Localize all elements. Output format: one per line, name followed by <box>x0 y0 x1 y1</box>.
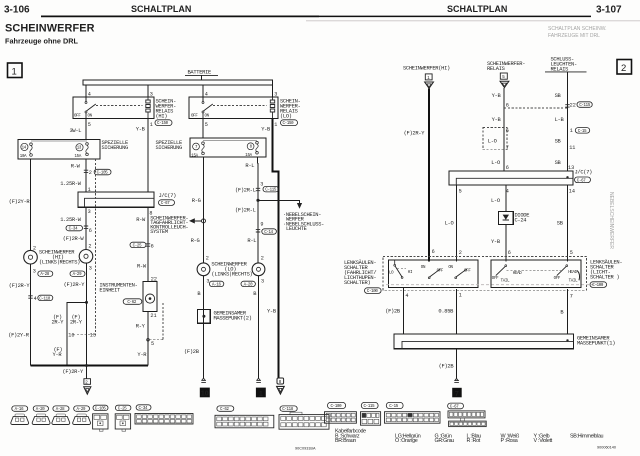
wire L-O junction to light switch pin2 <box>445 185 462 262</box>
svg-text:L-O: L-O <box>488 138 497 144</box>
svg-text:(F)2R-L: (F)2R-L <box>235 187 256 193</box>
svg-text:3: 3 <box>33 269 36 275</box>
junction dot nebel branch <box>256 199 259 202</box>
svg-text:C-34: C-34 <box>139 407 148 411</box>
svg-text:5: 5 <box>205 122 208 128</box>
connector C-34 multipin <box>135 405 193 424</box>
svg-text:2R-Y: 2R-Y <box>70 320 83 326</box>
svg-text:1: 1 <box>259 389 263 398</box>
svg-text:OFF: OFF <box>554 277 561 281</box>
connector C-25 fuseholder <box>115 405 131 431</box>
wire Y-B relay HI pin1 down <box>136 118 148 192</box>
ground terminal 7 <box>452 378 462 397</box>
wire (F)2R-Y left lamp down <box>9 264 31 366</box>
label lenksaeulen-schalter licht <box>590 258 622 288</box>
svg-text:C-105: C-105 <box>97 172 109 176</box>
svg-text:10A: 10A <box>20 155 27 159</box>
svg-text:R :Rot: R :Rot <box>467 438 481 444</box>
wire R-W fusebox to connector <box>71 159 86 192</box>
wire (F)2R-Y right lamp down to ground 2 <box>64 263 87 379</box>
lamp right SCHEINWERFER HI <box>79 249 93 263</box>
svg-text:Y-B: Y-B <box>261 126 271 132</box>
svg-text:900060140: 900060140 <box>597 446 616 450</box>
svg-text:2R-Y: 2R-Y <box>52 320 65 326</box>
svg-text:3-107: 3-107 <box>596 5 622 16</box>
svg-text:3: 3 <box>260 181 263 187</box>
svg-text:C-100: C-100 <box>331 405 343 409</box>
fuse 14 10A <box>20 143 33 159</box>
svg-text:SCHALTPLAN: SCHALTPLAN <box>131 4 191 14</box>
connector C-118 multipin <box>279 406 329 429</box>
inline connector 9 C-14 <box>256 221 277 235</box>
svg-text:4: 4 <box>34 296 37 302</box>
lamp right SCHEINWERFER LO <box>252 263 265 276</box>
svg-text:TAIL: TAIL <box>501 280 510 284</box>
wire drop to relay HI pin 4 <box>85 85 87 97</box>
svg-text:21: 21 <box>150 313 156 319</box>
connector C-105 fuseholder <box>93 405 108 431</box>
junction dot at ground line <box>85 364 88 367</box>
svg-text:OFF: OFF <box>437 270 444 274</box>
svg-text:1: 1 <box>150 122 153 128</box>
svg-text:2: 2 <box>621 63 626 74</box>
fuse 13 15A <box>75 143 89 160</box>
fuse box left label <box>102 140 128 151</box>
wire drop to relay HI pin 3 <box>147 85 149 97</box>
svg-text:C-67: C-67 <box>161 202 170 206</box>
svg-text:(F)2R-Y: (F)2R-Y <box>9 283 31 289</box>
svg-text:SCHALTER): SCHALTER) <box>344 280 370 286</box>
label SCHEINWERFER-RELAIS source <box>487 61 525 72</box>
connector oval C-150 relay HI <box>155 120 172 126</box>
diode label <box>515 212 530 223</box>
wire 1.25R-W below junction block <box>60 207 86 249</box>
node 5 with dashed branch <box>147 303 163 347</box>
svg-text:FAHRZEUGE MIT DRL: FAHRZEUGE MIT DRL <box>548 33 600 39</box>
connector oval C-150 relay LO <box>281 120 298 126</box>
header rule right page <box>319 15 591 17</box>
svg-text:C-62: C-62 <box>220 408 229 412</box>
svg-text:2: 2 <box>89 170 92 176</box>
svg-text:LEUCHTE: LEUCHTE <box>286 226 307 232</box>
svg-text:6: 6 <box>89 228 92 234</box>
svg-text:SCHEINWERFER(HI): SCHEINWERFER(HI) <box>403 66 450 72</box>
wire L-O junction pin4 to diode <box>491 185 506 211</box>
svg-text:R-Y: R-Y <box>136 324 146 330</box>
svg-text:5: 5 <box>570 250 573 256</box>
svg-text:C-62: C-62 <box>127 301 136 305</box>
junction block J/C(7) left page <box>78 192 154 207</box>
svg-text:C-34: C-34 <box>69 228 78 232</box>
svg-text:(HI): (HI) <box>156 114 168 120</box>
wire B light switch to masse <box>560 289 567 334</box>
svg-text:C-15: C-15 <box>578 130 587 134</box>
masse label <box>214 311 252 322</box>
junction block label J/C(7) <box>159 193 177 206</box>
pin 3 connector C-115 <box>235 181 278 193</box>
svg-text:GR:Grau: GR:Grau <box>435 438 455 444</box>
svg-text:R-W: R-W <box>71 163 81 169</box>
svg-text:A-29: A-29 <box>73 273 82 277</box>
wire (F)2B below masse <box>439 349 457 379</box>
svg-text:16: 16 <box>68 333 74 339</box>
svg-text:SICHERUNG: SICHERUNG <box>102 145 128 151</box>
relay K2 SCHEINWERFER-RELAIS (LO) <box>189 97 278 119</box>
svg-text:MASSEPUNKT(1): MASSEPUNKT(1) <box>577 341 615 347</box>
svg-text:5: 5 <box>88 122 91 128</box>
off-page connector 5 with triangle <box>500 73 509 88</box>
svg-text:15A: 15A <box>245 154 252 158</box>
relay K2 label <box>280 99 301 120</box>
svg-text:OFF: OFF <box>74 115 81 119</box>
connector C-15 <box>385 402 441 423</box>
wire SB junction to light switch pin5 <box>557 185 573 262</box>
wire labels (F)2R-Y pair <box>52 315 83 326</box>
connector C-115 <box>361 402 381 425</box>
svg-text:SCHEINWERFER: SCHEINWERFER <box>5 23 95 35</box>
svg-text:6: 6 <box>506 128 509 134</box>
node with arrow to other system <box>189 218 206 223</box>
pin 6 dashed link <box>504 102 568 108</box>
header rule left page <box>41 15 319 17</box>
svg-text:6: 6 <box>506 102 509 108</box>
svg-text:15A: 15A <box>75 155 82 159</box>
svg-text:(F)2R-Y: (F)2R-Y <box>64 282 86 288</box>
svg-text:3: 3 <box>89 265 92 271</box>
svg-text:7: 7 <box>570 293 573 299</box>
svg-text:R-L: R-L <box>245 163 254 169</box>
junction block label right <box>575 170 593 184</box>
ground terminal 1 <box>256 378 266 398</box>
fuse box center label <box>156 140 182 151</box>
svg-text:(F)2B: (F)2B <box>184 349 200 355</box>
svg-text:TAIL: TAIL <box>569 280 578 284</box>
ground terminal 10 <box>200 378 210 397</box>
svg-text:0.85B: 0.85B <box>438 308 454 314</box>
connector C-67 <box>448 403 487 427</box>
wire Y-B heavy relay LO pin1 down <box>261 118 278 377</box>
fuse box center SPEZIELLE SICHERUNG <box>190 138 266 157</box>
label lenksaeulen-schalter fahrlicht <box>344 259 381 294</box>
svg-text:C-100: C-100 <box>367 290 379 294</box>
svg-text:6: 6 <box>506 165 509 171</box>
lamp left SCHEINWERFER LO <box>197 263 210 276</box>
svg-text:5: 5 <box>459 189 462 195</box>
svg-text:Y-B: Y-B <box>267 309 277 315</box>
svg-text:R-G: R-G <box>191 238 200 244</box>
svg-text:1: 1 <box>12 67 17 78</box>
svg-text:C-25: C-25 <box>118 407 127 411</box>
svg-text:L-B: L-B <box>555 117 565 123</box>
svg-text:14: 14 <box>569 189 575 195</box>
svg-text:A-29: A-29 <box>77 408 86 412</box>
svg-text:C-118: C-118 <box>282 408 294 412</box>
diode C-24 <box>499 211 514 224</box>
common ground point GEMEINSAMER MASSEPUNKT(1) <box>394 334 574 349</box>
svg-text:OFF: OFF <box>191 115 198 119</box>
svg-text:7: 7 <box>506 145 509 151</box>
svg-text:6: 6 <box>432 249 435 255</box>
section marker box 2 <box>617 60 632 75</box>
svg-text:9: 9 <box>260 221 263 227</box>
svg-text:4: 4 <box>405 293 408 299</box>
svg-text:L-O: L-O <box>491 160 500 166</box>
wire 0.85B to masse <box>438 289 456 334</box>
svg-text:V :Violett: V :Violett <box>534 438 553 444</box>
wire (F)2B dimmer to masse <box>385 288 403 335</box>
connector A-29 <box>73 406 91 425</box>
battery bus bar <box>83 80 272 85</box>
wire B right LO lamp down <box>253 276 258 379</box>
svg-text:(F)2R-L: (F)2R-L <box>235 208 256 214</box>
connector oval A-20 <box>241 281 255 287</box>
svg-text:(F)2B: (F)2B <box>439 363 455 369</box>
svg-text:O :Orange: O :Orange <box>395 438 418 444</box>
label nebelscheinwerfer <box>283 212 324 232</box>
svg-text:A-16: A-16 <box>15 408 24 412</box>
svg-text:7: 7 <box>455 389 459 398</box>
junction dot branch <box>85 301 88 304</box>
svg-text:1: 1 <box>274 122 277 128</box>
inline connector C-34 on wire <box>66 225 92 234</box>
svg-text:L-O: L-O <box>491 198 500 204</box>
svg-text:R-W: R-W <box>136 217 146 223</box>
connector C-100 <box>325 402 357 423</box>
svg-text:(LINKS|RECHTS): (LINKS|RECHTS) <box>211 272 252 278</box>
connector oval A-28 <box>38 271 53 277</box>
svg-text:A-28: A-28 <box>56 408 65 412</box>
svg-text:SB:Himmelblau: SB:Himmelblau <box>570 433 604 439</box>
connector C-62 multipin <box>215 406 274 428</box>
wire labels (F) Y-R <box>53 347 63 358</box>
svg-text:SICHERUNG: SICHERUNG <box>156 145 182 151</box>
wire Y-B relais down <box>492 88 504 171</box>
svg-text:2: 2 <box>33 246 36 252</box>
svg-text:1.25R-W: 1.25R-W <box>60 217 82 223</box>
svg-text:2: 2 <box>459 250 462 256</box>
svg-text:2: 2 <box>261 255 264 261</box>
dashed wire optional x95 <box>94 159 96 335</box>
mechanical link dashed <box>386 284 597 286</box>
pin 1 connector C-15 <box>570 128 590 135</box>
svg-text:(F)2Y-R: (F)2Y-R <box>9 199 31 205</box>
label SCHEINWERFER (LO) (LINKS|RECHTS) <box>211 262 252 278</box>
fuse 7 15A <box>191 142 204 159</box>
wire Y-B diode to switch <box>491 225 511 262</box>
svg-text:BR:Braun: BR:Braun <box>335 438 356 444</box>
page edge shadow line <box>306 20 640 22</box>
inline connector C-25 pin 6 <box>130 242 154 249</box>
ground connector 2 <box>84 379 91 394</box>
wire (F)2R-Y heavy to dimmer switch <box>404 89 429 262</box>
wire branch to pin 16 <box>67 302 87 365</box>
svg-text:P :Rosa: P :Rosa <box>501 438 518 444</box>
svg-text:L-O: L-O <box>445 221 454 227</box>
svg-text:22: 22 <box>570 102 576 108</box>
svg-text:2: 2 <box>88 243 91 249</box>
relay K1 SCHEINWERFER-RELAIS (HI) <box>73 97 154 119</box>
connector A-16 <box>11 406 29 425</box>
svg-text:5: 5 <box>151 341 154 347</box>
instrument unit INSTRUMENTEN-EINHEIT <box>143 282 157 312</box>
svg-text:15A: 15A <box>191 154 198 158</box>
svg-text:(F)2R-W: (F)2R-W <box>63 236 85 242</box>
fuse 8 15A <box>245 141 258 157</box>
column switch outer dashed box <box>383 257 587 291</box>
svg-text:Y-B: Y-B <box>492 117 502 123</box>
svg-text:C-118: C-118 <box>39 297 51 301</box>
svg-text:(F)2R-Y: (F)2R-Y <box>62 369 84 375</box>
svg-text:A-28: A-28 <box>40 273 49 277</box>
wire drop to relay LO pin 3 <box>272 85 274 97</box>
lighting switch box <box>491 260 581 288</box>
svg-text:J/C(7): J/C(7) <box>575 170 593 176</box>
svg-text:C-14: C-14 <box>264 231 273 235</box>
svg-text:J/C(7): J/C(7) <box>159 193 177 199</box>
svg-text:C-100: C-100 <box>592 284 604 288</box>
svg-text:6: 6 <box>151 243 154 249</box>
svg-text:C-67: C-67 <box>577 179 586 183</box>
svg-text:SYSTEM: SYSTEM <box>150 229 168 235</box>
svg-text:C-25: C-25 <box>133 244 142 248</box>
wire drop to relay LO pin 4 <box>202 85 204 97</box>
wire R-Y instrument down <box>136 312 148 366</box>
relay K1 label <box>156 99 177 120</box>
label zum system links <box>150 216 188 236</box>
svg-text:SCHALTER ): SCHALTER ) <box>590 274 619 280</box>
connector oval A-16 <box>209 281 223 287</box>
svg-text:3: 3 <box>261 279 264 285</box>
node BATTERIE label <box>185 70 218 76</box>
svg-text:(F)2R-Y: (F)2R-Y <box>404 131 426 137</box>
connector oval C-62 instrument <box>123 299 142 305</box>
wire branch to nebel arrow <box>258 200 302 209</box>
svg-text:A-16: A-16 <box>212 283 221 287</box>
svg-text:C-67: C-67 <box>450 406 459 410</box>
svg-text:C-150: C-150 <box>157 122 169 126</box>
svg-text:Fahrzeuge ohne DRL: Fahrzeuge ohne DRL <box>5 37 79 46</box>
svg-text:MASSEPUNKT(2): MASSEPUNKT(2) <box>214 316 252 322</box>
svg-text:R-W: R-W <box>137 263 147 269</box>
svg-text:1: 1 <box>459 292 462 298</box>
svg-text:SCHALTPLAN: SCHALTPLAN <box>447 4 507 14</box>
wire 3W-L relay HI pin5 to fusebox <box>70 118 87 139</box>
svg-text:C-24: C-24 <box>515 217 527 223</box>
svg-text:2: 2 <box>206 255 209 261</box>
inline connector 2 C-105 <box>84 169 111 176</box>
svg-text:BATTERIE: BATTERIE <box>188 70 212 76</box>
ground symbol B heavy wire <box>277 378 285 394</box>
svg-text:6: 6 <box>508 250 511 256</box>
svg-text:C-150: C-150 <box>283 122 295 126</box>
common ground point GEMEINSAMER MASSEPUNKT(2) <box>198 310 211 324</box>
svg-text:A-20: A-20 <box>244 283 253 287</box>
svg-text:C-105: C-105 <box>95 407 107 411</box>
ghost print-through pink text right page <box>548 26 614 249</box>
wire relay LO pin5 to center fusebox <box>202 118 204 138</box>
wire R-L right fuse to LO right lamp <box>245 157 258 263</box>
svg-text:1.25R-W: 1.25R-W <box>60 181 82 187</box>
dimmer passing switch box <box>389 260 479 288</box>
wire R-W J/C pin8 down to instrument <box>136 207 148 281</box>
svg-text:C-115: C-115 <box>265 189 277 193</box>
connector A-20 <box>32 406 50 425</box>
dashed link pins 16-13 <box>73 334 95 336</box>
wire R-G LO left lamp feed <box>192 157 204 263</box>
junction block J/C(7) right page <box>449 171 573 185</box>
dashed option box <box>483 128 507 150</box>
wire SB schluss relais down <box>555 72 568 171</box>
section marker box 1 <box>8 63 23 78</box>
svg-text:Y-R: Y-R <box>53 352 63 358</box>
svg-text:C-115: C-115 <box>364 405 376 409</box>
wire battery stub <box>201 75 203 80</box>
svg-text:3-106: 3-106 <box>4 5 30 16</box>
svg-text:C-15: C-15 <box>389 405 398 409</box>
svg-text:C-115: C-115 <box>579 104 591 108</box>
svg-text:NEBELSCHEINWERFER: NEBELSCHEINWERFER <box>608 192 614 249</box>
svg-text:Y-R: Y-R <box>137 352 147 358</box>
svg-text:SCHALTPLAN SCHEINW.: SCHALTPLAN SCHEINW. <box>548 26 607 32</box>
svg-text:(LINKS|RECHTS): (LINKS|RECHTS) <box>39 259 80 265</box>
svg-text:13: 13 <box>568 165 574 171</box>
svg-text:90C0931BA: 90C0931BA <box>295 447 316 451</box>
ground wire heavy horizontal <box>31 365 149 367</box>
svg-text:1: 1 <box>570 128 573 134</box>
svg-text:(F)2B: (F)2B <box>385 308 401 314</box>
svg-text:OFF: OFF <box>492 277 499 281</box>
fuse box left SPEZIELLE SICHERUNG <box>18 139 100 159</box>
svg-text:11: 11 <box>569 145 575 151</box>
lamp left SCHEINWERFER HI <box>24 250 38 264</box>
svg-text:Y-B: Y-B <box>136 127 146 133</box>
wire left HI lamp feed (F)2Y-R <box>9 159 36 252</box>
inline connector 4 C-118 <box>28 294 53 301</box>
svg-text:R-L: R-L <box>247 238 256 244</box>
wire color code legend <box>335 428 604 444</box>
pin 22 connector C-115 <box>565 102 592 109</box>
svg-text:HEAD: HEAD <box>513 272 522 276</box>
svg-text:HEAD: HEAD <box>568 271 577 275</box>
svg-text:(F)2Y-R: (F)2Y-R <box>8 333 30 339</box>
svg-text:10: 10 <box>201 391 209 398</box>
svg-text:Y-B: Y-B <box>491 239 501 245</box>
off-page connector 1 with triangle <box>425 74 434 89</box>
svg-text:RELAIS: RELAIS <box>487 66 505 72</box>
svg-text:3W-L: 3W-L <box>70 128 82 134</box>
svg-text:A-20: A-20 <box>36 408 45 412</box>
wire B left LO lamp to masse <box>197 276 203 379</box>
svg-text:13: 13 <box>90 333 96 339</box>
connector A-28 <box>52 406 70 425</box>
label SCHEINWERFER (HI) (LINKS|RECHTS) <box>39 249 80 265</box>
svg-text:Y-B: Y-B <box>492 93 502 99</box>
svg-text:(LO): (LO) <box>280 114 292 120</box>
label SCHLUSS-LEUCHTEN-RELAIS <box>545 57 587 73</box>
svg-text:3: 3 <box>88 209 91 215</box>
svg-text:R-G: R-G <box>192 198 201 204</box>
svg-text:EINHEIT: EINHEIT <box>99 288 121 294</box>
connector oval A-29 <box>70 271 85 277</box>
instrument unit label <box>99 283 137 294</box>
masse 1 label <box>577 336 615 347</box>
